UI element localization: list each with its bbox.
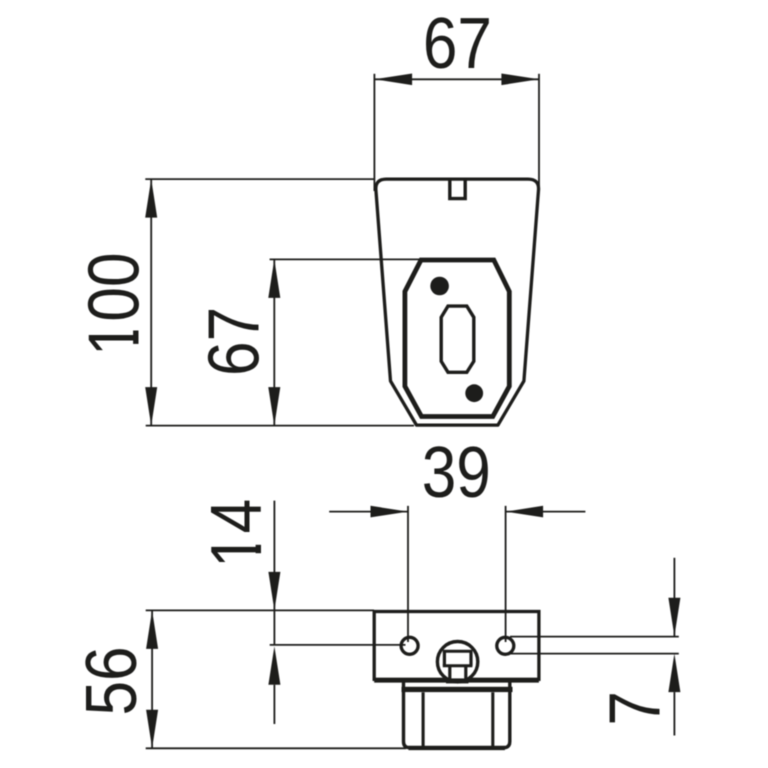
- svg-text:100: 100: [74, 252, 154, 356]
- svg-text:14: 14: [197, 499, 277, 568]
- svg-text:56: 56: [72, 646, 152, 715]
- svg-text:67: 67: [194, 307, 274, 376]
- svg-text:39: 39: [422, 433, 491, 513]
- svg-text:67: 67: [423, 4, 492, 84]
- svg-text:7: 7: [595, 691, 675, 726]
